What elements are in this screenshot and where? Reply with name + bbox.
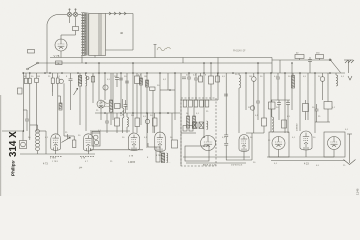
resistor R18 box: [172, 140, 178, 148]
wire: [225, 137, 227, 144]
stub wire: [182, 58, 184, 64]
resistor R12a box: [199, 76, 203, 82]
wire: [292, 73, 294, 76]
serial number right edge: [356, 188, 360, 195]
fuse F2: [73, 9, 77, 17]
wire: [70, 81, 72, 110]
wire: [146, 73, 148, 148]
wire: [195, 73, 197, 78]
resistor R7: [146, 80, 149, 87]
wire: [251, 133, 253, 160]
speaker frame box: [185, 146, 209, 161]
wire: [271, 109, 273, 117]
tube V10 shield frame: [324, 132, 345, 157]
resistor R9: [110, 100, 113, 112]
wire: [126, 113, 128, 117]
transformer T1 secondary hatch: [98, 14, 100, 56]
wire: [210, 63, 212, 76]
wire: [133, 149, 135, 152]
wire: [106, 113, 108, 121]
wire: [126, 127, 128, 133]
resistor R20 box: [295, 55, 304, 59]
wire mains link: [72, 14, 74, 16]
transformer T1 primary winding: [81, 13, 83, 56]
resistor R24 box: [324, 102, 332, 110]
wire mains to transformer: [78, 14, 82, 16]
junction: [61, 72, 63, 74]
junction: [188, 72, 190, 74]
pick-up connector: [20, 141, 27, 149]
wire: [257, 63, 259, 95]
wire: [160, 152, 162, 153]
wire: [85, 86, 87, 131]
capacitor C2 box: [28, 78, 31, 83]
wire bottom right 2: [271, 160, 345, 162]
capacitor C15: [187, 77, 191, 79]
trimmer P7: [250, 106, 254, 110]
wire: [257, 103, 259, 120]
wire: [270, 73, 272, 132]
wire: [64, 135, 74, 137]
tube V3 (osc): [97, 100, 105, 108]
junction: [329, 72, 331, 74]
wire: [120, 73, 122, 108]
junction: [23, 130, 25, 132]
wire: [104, 73, 106, 100]
wire: [263, 126, 265, 133]
wire: [23, 109, 27, 111]
output transformer T2 frame: [156, 147, 160, 162]
wire: [29, 84, 31, 141]
wire: [322, 81, 324, 100]
capacitor block C21: [205, 100, 209, 107]
wire: [125, 100, 127, 105]
component box TB: [56, 61, 63, 65]
junction: [245, 72, 247, 74]
tube V4 (detector): [129, 133, 140, 151]
wire: [335, 73, 337, 75]
ground down arrow: [344, 134, 356, 165]
wire bus end join: [271, 58, 273, 74]
junction: [120, 112, 122, 114]
wire: [271, 99, 290, 101]
tube V9: [300, 131, 312, 150]
wire: [87, 151, 89, 154]
junction: [284, 72, 286, 74]
voltage selector R1 box: [73, 27, 79, 31]
trimmer arrow: [74, 88, 78, 95]
transformer T1 secondary winding box: [89, 14, 106, 56]
fuse F1: [67, 9, 71, 17]
capacitor C27: [256, 101, 260, 103]
stage dashed box: [181, 98, 216, 166]
wire: [26, 121, 28, 131]
capacitor C24 box: [115, 104, 121, 109]
wire: [299, 59, 301, 61]
wire heater loop bottom: [106, 49, 134, 51]
resistor R26 box: [269, 102, 276, 109]
wire: [30, 124, 38, 126]
wire: [277, 73, 279, 77]
pencil annotation: [100, 102, 111, 108]
wire: [136, 113, 138, 118]
junction: [98, 72, 100, 74]
capacitor C16: [194, 78, 198, 80]
junction bus2: [257, 62, 259, 64]
wire: [51, 84, 53, 93]
wire heater loop top: [106, 13, 134, 15]
wire: [125, 106, 127, 113]
trimmer P1: [59, 79, 63, 83]
wire: [73, 136, 75, 140]
wire: [193, 100, 195, 116]
wire: [245, 73, 247, 110]
output transformer T2 winding: [161, 153, 164, 163]
wire: [98, 63, 100, 100]
wire: [187, 107, 189, 116]
wire mains drop: [46, 24, 48, 73]
wire: [316, 111, 318, 122]
bus screen: [38, 62, 273, 64]
wire: [333, 150, 335, 158]
wire: [51, 73, 53, 78]
wire: [36, 73, 38, 78]
wire: [322, 73, 324, 77]
stub antenna tap: [154, 45, 157, 58]
wire: [210, 84, 212, 100]
wire: [174, 73, 176, 120]
wire: [152, 90, 154, 133]
resistor R3: [59, 103, 62, 110]
wire: [329, 59, 331, 61]
wire: [147, 143, 149, 147]
transformer T1 core: [85, 13, 87, 56]
wire: [316, 104, 318, 109]
wire: [238, 88, 240, 133]
wire: [112, 73, 114, 120]
wire: [147, 124, 149, 133]
wire: [217, 73, 219, 76]
junction: [132, 112, 134, 114]
wire: [159, 152, 161, 154]
capacitor C28: [224, 135, 228, 137]
wire mains top: [57, 14, 67, 16]
wire heater loop right: [132, 14, 134, 51]
coil L7: [127, 117, 128, 127]
junction bus2: [132, 62, 134, 64]
diode arrow: [62, 137, 71, 142]
wire: [154, 126, 156, 133]
wire: [246, 132, 264, 134]
wire: [188, 79, 190, 100]
wire: [29, 73, 31, 78]
wire: [309, 57, 311, 60]
junction: [77, 72, 79, 74]
wire: [195, 80, 197, 100]
bus +HT: [50, 57, 272, 59]
wire: [136, 73, 138, 76]
resistor R12 box: [209, 76, 214, 84]
capacitor block C18: [189, 100, 193, 107]
capacitor C36: [315, 109, 319, 111]
tube V8: [272, 137, 285, 150]
wire: [167, 73, 169, 90]
capacitor C10 box: [91, 77, 94, 83]
wire loop: [186, 162, 246, 164]
coil L2: [78, 76, 81, 87]
wire: [327, 109, 329, 122]
capacitor C34: [277, 103, 281, 105]
trimmer P2: [86, 77, 89, 80]
wire: [90, 132, 100, 134]
wire: [243, 152, 245, 161]
trimmer P3: [103, 85, 108, 90]
capacitor C4 box: [57, 78, 60, 84]
wire: [226, 159, 252, 161]
junction: [257, 72, 259, 74]
tube V5 (output): [155, 132, 166, 152]
wire: [291, 63, 293, 110]
wire: [63, 83, 65, 136]
wire: [81, 56, 83, 64]
wire: [154, 113, 156, 118]
wire: [148, 146, 156, 148]
wire: [79, 86, 81, 125]
wire: [181, 99, 218, 101]
junction: [270, 72, 272, 74]
output transformer T2 secondary: [167, 153, 168, 163]
capacitor C11: [119, 78, 123, 80]
wire: [200, 73, 202, 76]
tube V8 shield frame: [269, 132, 289, 157]
capacitor C6: [25, 119, 29, 121]
wire: [22, 131, 24, 141]
junction: [217, 72, 219, 74]
coil L6: [239, 75, 241, 88]
transformer T1 primary winding layer 2: [83, 13, 85, 56]
wire: [159, 73, 161, 133]
wire: [277, 79, 279, 100]
resistor R2 box: [35, 78, 39, 82]
wire: [37, 151, 39, 155]
scan edge shadow: [0, 95, 1, 196]
capacitor C26: [105, 121, 109, 123]
resistor R15 box: [216, 76, 220, 82]
wire: [319, 59, 321, 61]
capacitor C30: [308, 60, 312, 62]
chassis ground symbol: [344, 60, 354, 73]
wire: [279, 60, 281, 73]
wire: [305, 112, 307, 121]
capacitor C13: [115, 78, 119, 80]
capacitor dashes: [182, 77, 186, 79]
pencil note Tol: [157, 47, 171, 51]
wire: [75, 31, 77, 36]
coil L8: [336, 75, 338, 86]
capacitor block dark b: [199, 122, 204, 129]
tube V2 (IF amp): [83, 134, 93, 151]
junction bus2: [98, 62, 100, 64]
wire: [278, 104, 280, 120]
wire: [225, 73, 227, 135]
capacitor C35: [286, 103, 290, 105]
wire: [257, 95, 259, 101]
tube V6 (AF): [201, 136, 216, 151]
arrow ticks on heater wire: [109, 12, 126, 15]
transformer T1 core line 2: [87, 13, 89, 56]
wire: [25, 73, 27, 78]
wire: [37, 125, 39, 130]
wire: [203, 63, 205, 100]
wire loop: [183, 156, 250, 158]
wire: [253, 73, 255, 77]
junction: [167, 112, 169, 114]
wire: [60, 96, 62, 103]
wire: [238, 73, 240, 75]
junction: [203, 136, 205, 138]
wire: [57, 84, 59, 135]
resistor R19 box: [262, 118, 267, 126]
IF trimmer b: [94, 140, 98, 144]
wire: [217, 58, 219, 101]
resistor R6: [140, 78, 143, 85]
rectifier tube V78: [55, 39, 67, 51]
junction: [29, 72, 31, 74]
wire: [61, 34, 76, 36]
tube V1 (mixer): [51, 134, 61, 151]
wire: [26, 110, 28, 119]
transformer T1 primary winding layer 3: [84, 13, 86, 56]
capacitor block C17: [183, 100, 187, 107]
wire: [67, 134, 69, 139]
wire stage frame left: [180, 73, 182, 166]
wire: [106, 123, 108, 133]
wire: [287, 104, 289, 133]
wire: [75, 17, 77, 27]
wire: [225, 145, 227, 160]
junction: [132, 72, 134, 74]
wire: [60, 35, 62, 39]
wire: [55, 150, 57, 154]
junction: [104, 72, 106, 74]
cathode resistor marks: [50, 155, 94, 157]
wire: [122, 118, 124, 133]
wire: [203, 100, 205, 136]
junction: [169, 89, 171, 91]
wire: [57, 73, 59, 78]
wire: [253, 81, 255, 133]
transformer T1 secondary hatch 2: [100, 14, 102, 56]
resistor R25 box: [282, 120, 287, 128]
wire: [94, 56, 96, 58]
wire: [147, 113, 149, 119]
wire: [60, 51, 62, 58]
tube V7 (output): [239, 135, 249, 152]
capacitor C1 box: [24, 78, 27, 83]
wire: [92, 73, 94, 103]
wire: [116, 73, 118, 78]
wire: [188, 73, 190, 77]
junction: [49, 72, 51, 74]
wire: [287, 100, 289, 103]
wire: [315, 121, 330, 123]
junction: [232, 72, 234, 74]
junction: [314, 72, 316, 74]
wire bottom bus left: [20, 153, 95, 155]
wire: [136, 84, 138, 114]
wire: [181, 132, 196, 134]
wire: [307, 73, 309, 120]
wire: [263, 73, 265, 100]
wire: [136, 127, 138, 134]
wire: [171, 113, 173, 140]
IF can box: [92, 132, 100, 147]
trimmer P4: [252, 77, 257, 82]
junction: [85, 72, 87, 74]
junction: [203, 72, 205, 74]
resistor R17 box: [153, 118, 158, 126]
resistor R8 box: [150, 87, 156, 90]
wire bottom bus mid: [90, 149, 143, 151]
wire: [132, 63, 134, 133]
resistor R21 box: [316, 55, 324, 59]
wire mains curve: [47, 15, 57, 25]
wire: [116, 79, 118, 87]
capacitor C22 box: [183, 126, 187, 132]
wire: [305, 150, 307, 157]
capacitor C29: [224, 143, 228, 145]
junction bus2: [85, 62, 87, 64]
junction: [104, 112, 106, 114]
junction: [44, 72, 46, 74]
wire: [126, 73, 128, 110]
wire link mid: [95, 112, 180, 114]
wire: [284, 73, 286, 133]
wire: [110, 73, 112, 100]
junction: [174, 72, 176, 74]
coil L5: [123, 108, 124, 118]
wire: [45, 131, 47, 154]
wave band box: [28, 50, 35, 54]
wire: [90, 130, 130, 132]
IF trimmer a: [94, 135, 98, 139]
junction: [146, 72, 148, 74]
wire: [305, 100, 307, 104]
wire: [100, 108, 102, 120]
junction: [120, 72, 122, 74]
junction bus2: [210, 62, 212, 64]
capacitor block C20: [200, 100, 204, 107]
wire bottom right: [267, 156, 334, 158]
capacitor C23 box: [189, 126, 193, 132]
coil L9: [272, 117, 274, 132]
bus chassis: [22, 72, 345, 74]
wire: [110, 112, 112, 125]
terminal box: [18, 88, 23, 94]
resistor R14: [193, 116, 196, 128]
resistor R22: [292, 76, 295, 89]
wire: [79, 73, 81, 76]
capacitor C25: [124, 105, 128, 107]
wire: [116, 113, 118, 118]
wire antenna lead: [2, 130, 23, 132]
coil L10: [207, 121, 208, 129]
capacitor C3 box: [51, 78, 54, 84]
wire: [122, 99, 124, 108]
wire: [271, 100, 273, 102]
model label Philips 314 X: [8, 131, 19, 176]
resistor R11 box: [115, 118, 120, 126]
